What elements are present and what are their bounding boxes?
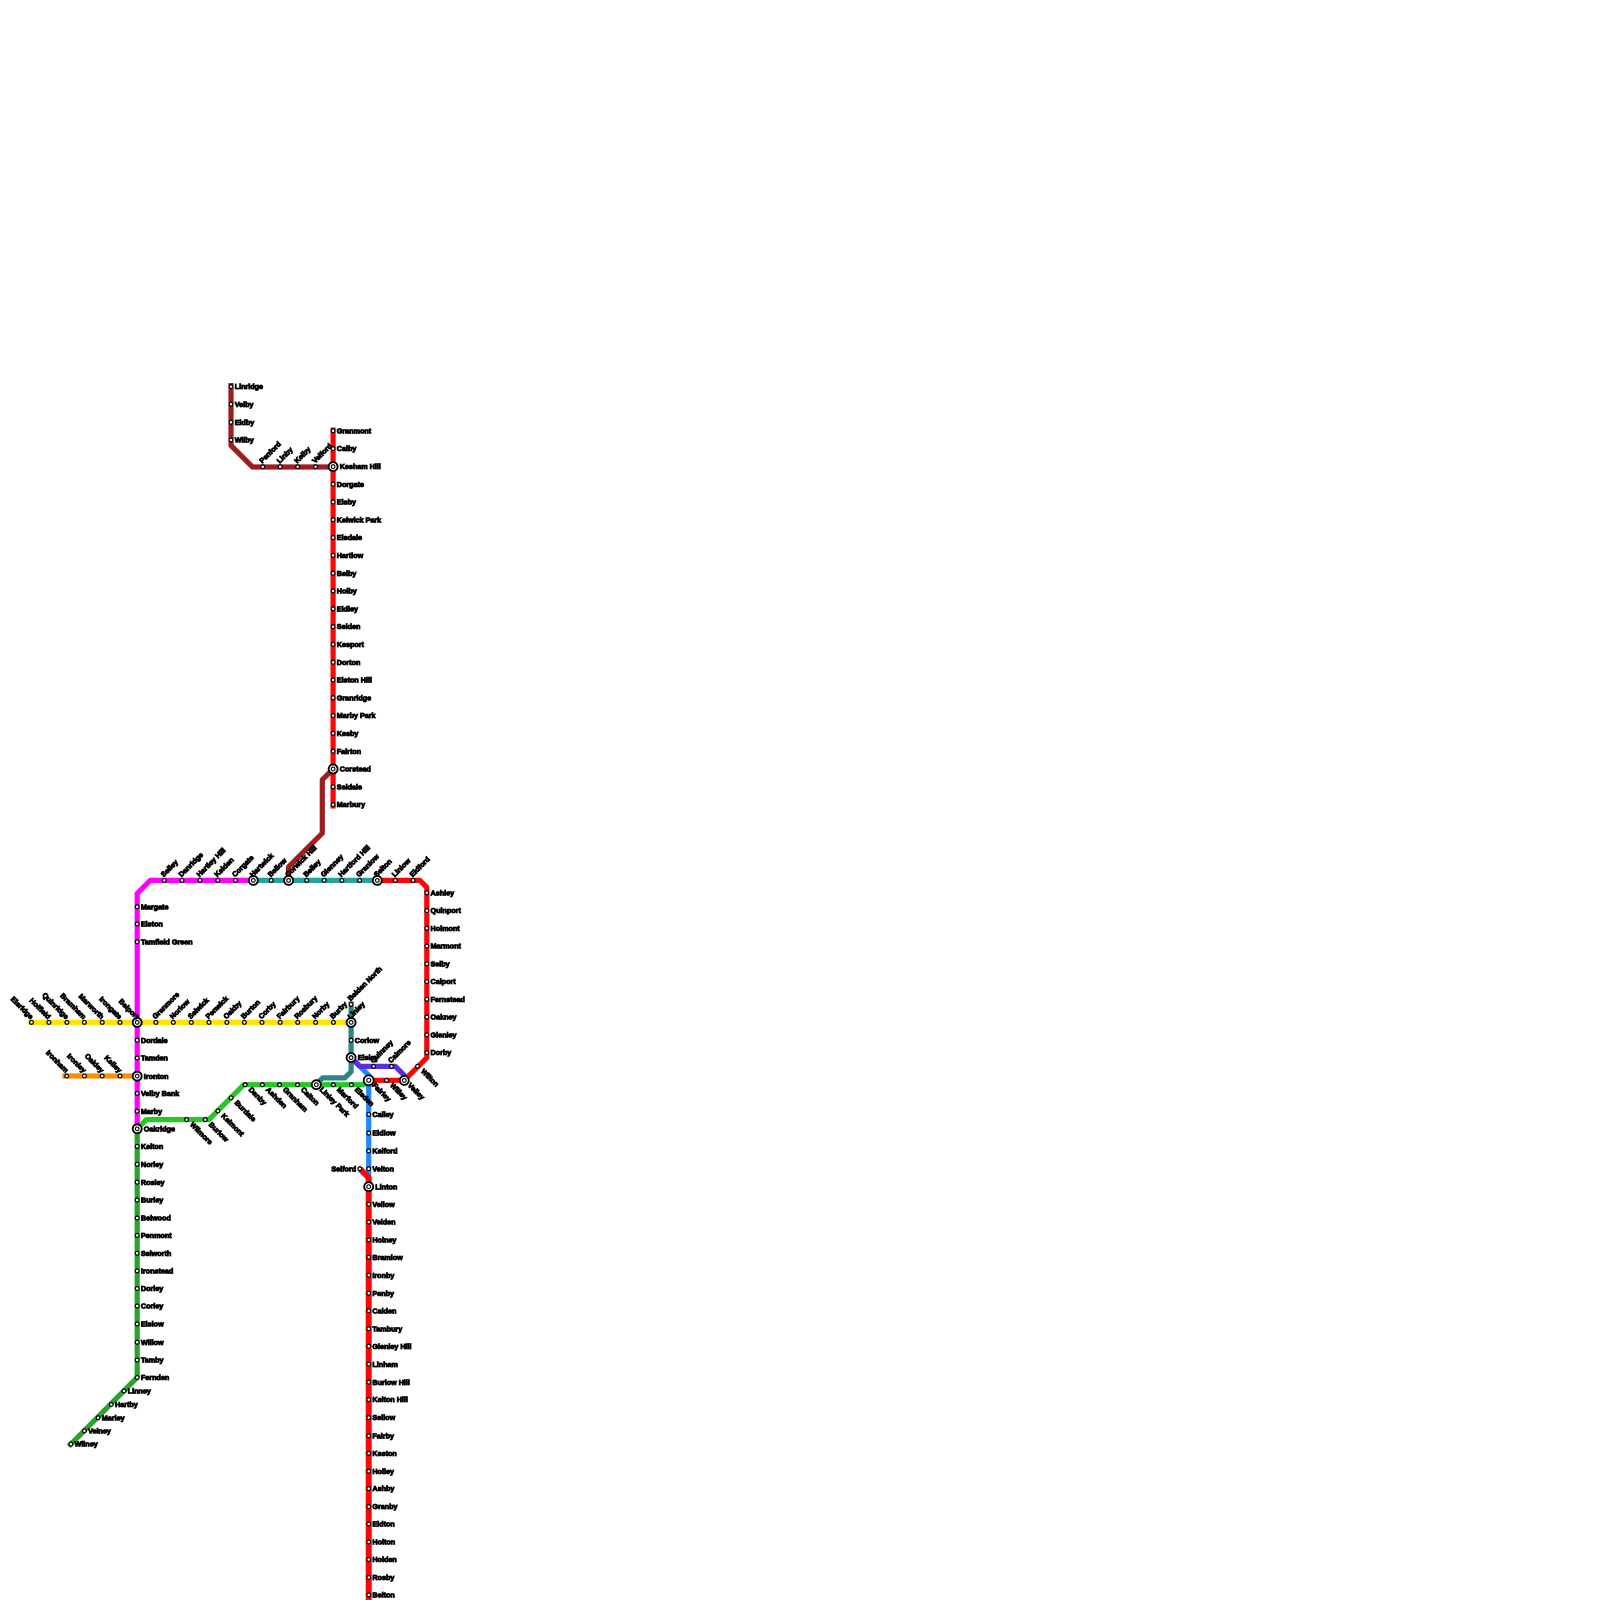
line Maroon branch west (231, 383, 333, 467)
station orange 1 (44, 1048, 70, 1078)
station magenta V4 (135, 1036, 167, 1045)
station green E6 (350, 1083, 377, 1108)
svg-text:Granby: Granby (372, 1502, 397, 1511)
interchange magenta-green interchange (133, 1124, 175, 1133)
svg-text:Hartby: Hartby (115, 1400, 138, 1409)
line Bright green line (137, 1080, 369, 1129)
station red N17 (331, 729, 358, 738)
station red N1 (331, 426, 372, 435)
line Purple line (351, 1058, 404, 1081)
station corridor teal 4 (336, 843, 372, 882)
station red S23 (367, 1591, 395, 1600)
svg-text:Kelwick Park: Kelwick Park (337, 515, 381, 524)
station red S1 (367, 1200, 395, 1209)
station corridor red 2 (408, 855, 432, 883)
station yellow E11 (328, 1000, 349, 1025)
svg-text:Corlow: Corlow (355, 1036, 380, 1045)
svg-text:Belby: Belby (337, 569, 357, 578)
station red S16 (367, 1467, 394, 1476)
svg-text:Granmont: Granmont (337, 426, 372, 435)
station red loop 4 (425, 942, 462, 951)
station red N9 (331, 587, 357, 596)
station yellow E10 (310, 1000, 331, 1025)
line Magenta line (137, 880, 253, 1128)
svg-text:Elsdale: Elsdale (337, 533, 362, 542)
station maroon V2 (229, 400, 253, 409)
station dgreen V11 (135, 1320, 164, 1329)
station yellow W1 (9, 995, 35, 1025)
svg-text:Tamfield Green: Tamfield Green (141, 937, 193, 946)
station corridor teal 2 (301, 857, 322, 882)
station dgreen V6 (135, 1231, 172, 1240)
station dgreen V3 (135, 1178, 164, 1187)
station yellow E5 (221, 999, 243, 1024)
station red S22 (367, 1573, 395, 1582)
svg-text:Tambury: Tambury (372, 1324, 402, 1333)
station green H2 (203, 1118, 230, 1144)
station corridor red 1 (390, 856, 413, 882)
station red S2 (367, 1218, 396, 1227)
svg-text:Norley: Norley (141, 1160, 163, 1169)
svg-text:Linney: Linney (128, 1387, 151, 1396)
station red N6 (331, 533, 362, 542)
svg-text:Tamby: Tamby (141, 1356, 164, 1365)
station red loop 8 (425, 1013, 457, 1022)
station maroon H2 (275, 445, 295, 468)
svg-text:Bramlow: Bramlow (372, 1253, 403, 1262)
station dgreen D4 (83, 1426, 111, 1435)
station red south branch stub (331, 1164, 361, 1173)
svg-text:Sellow: Sellow (372, 1413, 395, 1422)
station dgreen V13 (135, 1356, 163, 1365)
svg-text:Glenley Hill: Glenley Hill (372, 1342, 411, 1351)
interchange teal-blue-purple interchange (347, 1053, 379, 1062)
station red S9 (367, 1342, 412, 1351)
station corridor teal 5 (354, 852, 381, 882)
station green E4 (296, 1083, 322, 1108)
station red N10 (331, 604, 358, 613)
station corridor teal 1 (266, 856, 289, 883)
svg-text:Ironton: Ironton (144, 1072, 169, 1081)
svg-text:Ashley: Ashley (431, 888, 455, 897)
station yellow E6 (239, 998, 262, 1025)
svg-text:Kelford: Kelford (372, 1147, 397, 1156)
station red S15 (367, 1449, 397, 1458)
station red N8 (331, 569, 356, 578)
svg-text:Kesham Hill: Kesham Hill (340, 462, 381, 471)
svg-text:Linton: Linton (375, 1182, 397, 1191)
svg-text:Ashby: Ashby (372, 1484, 394, 1493)
station teal terminus (346, 965, 384, 1007)
svg-text:Dordale: Dordale (141, 1036, 168, 1045)
station red loop 5 (425, 959, 450, 968)
station red N13 (331, 658, 360, 667)
station green E2 (261, 1083, 289, 1110)
svg-text:Wilby: Wilby (235, 436, 254, 445)
svg-text:Dorton: Dorton (337, 658, 361, 667)
svg-text:Marby: Marby (141, 1107, 162, 1116)
station yellow W5 (77, 992, 106, 1025)
interchange corridor maroon interchange (283, 843, 318, 885)
station red N12 (331, 640, 364, 649)
station red S10 (367, 1360, 398, 1369)
interchange orange-magenta interchange (133, 1072, 169, 1081)
station red S19 (367, 1520, 395, 1529)
svg-text:Fernden: Fernden (141, 1373, 169, 1382)
station yellow E1 (150, 990, 181, 1024)
station magenta V7 (135, 1107, 162, 1116)
station orange 3 (83, 1052, 106, 1078)
line Red north trunk (331, 428, 336, 809)
station red N2 (331, 444, 356, 453)
station red N7 (331, 551, 363, 560)
station orange 2 (65, 1052, 88, 1078)
svg-text:Elsby: Elsby (337, 498, 356, 507)
station dgreen V10 (135, 1302, 163, 1311)
interchange red-purple interchange (400, 1076, 427, 1102)
station corridor magenta 1 (159, 858, 180, 883)
station green E3 (278, 1083, 310, 1114)
svg-text:Calley: Calley (372, 1110, 393, 1119)
svg-text:Marmont: Marmont (431, 942, 462, 951)
station blue 2 (367, 1129, 396, 1138)
svg-text:Corstead: Corstead (340, 765, 371, 774)
interchange corridor teal-red interchange (372, 857, 394, 885)
station maroon V3 (229, 418, 254, 427)
svg-text:Ironstead: Ironstead (141, 1267, 173, 1276)
station red N18 (331, 747, 361, 756)
svg-text:Marby Park: Marby Park (337, 711, 376, 720)
station red S8 (367, 1324, 402, 1333)
svg-text:Eldton: Eldton (372, 1520, 394, 1529)
svg-text:Velby: Velby (235, 400, 254, 409)
station red S21 (367, 1555, 397, 1564)
svg-text:Oakridge: Oakridge (144, 1124, 175, 1133)
station dgreen V9 (135, 1284, 163, 1293)
station yellow W6 (97, 995, 123, 1025)
svg-text:Velton: Velton (372, 1164, 394, 1173)
line Red east loop (369, 880, 427, 1080)
station red N5 (331, 515, 381, 524)
station green D2 (229, 1096, 258, 1124)
station red N19 (331, 782, 362, 791)
svg-text:Belwood: Belwood (141, 1214, 171, 1223)
svg-text:Elslow: Elslow (141, 1320, 164, 1329)
svg-text:Rosby: Rosby (372, 1573, 394, 1582)
station dgreen V12 (135, 1338, 164, 1347)
station teal mid (349, 1036, 379, 1045)
station yellow E8 (275, 994, 302, 1024)
svg-text:Velden: Velden (372, 1218, 395, 1227)
interchange yellow-teal interchange (346, 1000, 367, 1027)
svg-text:Kesby: Kesby (337, 729, 359, 738)
line Blue line (351, 1058, 369, 1187)
svg-text:Belton: Belton (372, 1591, 394, 1600)
station magenta V5 (135, 1054, 168, 1063)
station corridor magenta 3 (195, 846, 228, 882)
svg-text:Kelton Hill: Kelton Hill (372, 1395, 408, 1404)
svg-text:Marley: Marley (102, 1413, 125, 1422)
station red S5 (367, 1271, 395, 1280)
station red S3 (367, 1236, 397, 1245)
svg-text:Quinport: Quinport (431, 906, 462, 915)
station orange 4 (102, 1053, 123, 1078)
line Yellow line (28, 1020, 351, 1025)
interchange yellow-magenta interchange (117, 997, 142, 1027)
svg-text:Willow: Willow (141, 1338, 164, 1347)
station red S18 (367, 1502, 398, 1511)
station red S11 (367, 1378, 410, 1387)
station red loop west (385, 1079, 410, 1102)
station corridor magenta 2 (177, 850, 205, 882)
station red S12 (367, 1395, 408, 1404)
svg-text:Granridge: Granridge (337, 693, 371, 702)
station red N14 (331, 676, 372, 685)
svg-text:Ironby: Ironby (372, 1271, 394, 1280)
svg-text:Holden: Holden (372, 1555, 396, 1564)
svg-text:Dorby: Dorby (431, 1048, 452, 1057)
line Teal corridor (253, 878, 377, 883)
station dgreen D5 (69, 1440, 98, 1449)
station red loop 10 (425, 1048, 451, 1057)
station red N20 (331, 800, 365, 809)
svg-text:Penby: Penby (372, 1289, 394, 1298)
svg-text:Hartlow: Hartlow (337, 551, 364, 560)
station red S17 (367, 1484, 395, 1493)
station dgreen V2 (135, 1160, 163, 1169)
station dgreen V5 (135, 1214, 171, 1223)
svg-text:Eldley: Eldley (337, 604, 358, 613)
station yellow E9 (292, 994, 319, 1024)
station red loop 1 (425, 888, 454, 897)
station green H1 (185, 1118, 215, 1147)
station blue 1 (367, 1110, 394, 1119)
station magenta V6 (135, 1089, 179, 1098)
station magenta V2 (135, 920, 163, 929)
svg-text:Rosley: Rosley (141, 1178, 165, 1187)
station red S4 (367, 1253, 403, 1262)
svg-text:Fairby: Fairby (372, 1431, 394, 1440)
station red loop 6 (425, 977, 456, 986)
line Red south trunk (360, 1169, 369, 1600)
station dgreen V1 (135, 1142, 163, 1151)
station yellow E7 (257, 1000, 278, 1025)
station red S13 (367, 1413, 396, 1422)
svg-text:Dorley: Dorley (141, 1284, 163, 1293)
station dgreen V14 (135, 1373, 169, 1382)
station dgreen V7 (135, 1249, 171, 1258)
station red loop diag (416, 1064, 441, 1088)
line Maroon connector south (289, 769, 334, 880)
svg-text:Seldale: Seldale (337, 782, 362, 791)
station red S6 (367, 1289, 394, 1298)
station red N16 (331, 711, 375, 720)
station yellow E2 (168, 997, 192, 1024)
svg-text:Selby: Selby (431, 959, 450, 968)
interchange blue-red interchange (364, 1182, 397, 1191)
station yellow W4 (58, 991, 88, 1024)
svg-text:Burley: Burley (141, 1196, 163, 1205)
station green D1 (216, 1109, 247, 1138)
station maroon V1 (229, 382, 263, 391)
station maroon H3 (292, 445, 312, 469)
svg-text:Elston: Elston (141, 920, 163, 929)
interchange red mid interchange (329, 765, 371, 774)
svg-text:Selford: Selford (331, 1164, 356, 1173)
svg-text:Penmont: Penmont (141, 1231, 172, 1240)
svg-text:Holton: Holton (372, 1538, 395, 1547)
svg-text:Velby Bank: Velby Bank (141, 1089, 179, 1098)
station red loop 7 (425, 995, 465, 1004)
svg-text:Linham: Linham (372, 1360, 398, 1369)
svg-text:Eldby: Eldby (235, 418, 255, 427)
station magenta V1 (135, 902, 168, 911)
station yellow W2 (28, 996, 53, 1024)
station dgreen D2 (109, 1400, 137, 1409)
line Dark green line (69, 1129, 138, 1447)
station dgreen D1 (122, 1387, 151, 1396)
svg-text:Selden: Selden (337, 622, 361, 631)
station red loop 9 (425, 1030, 457, 1039)
station red S20 (367, 1538, 395, 1547)
station yellow W3 (40, 991, 70, 1025)
svg-text:Vellow: Vellow (372, 1200, 395, 1209)
station red N4 (331, 498, 356, 507)
station green E5 (332, 1083, 361, 1111)
interchange corridor magenta-teal interchange (248, 851, 276, 885)
svg-text:Holby: Holby (337, 587, 357, 596)
station red loop 2 (425, 906, 462, 915)
station magenta V3 (135, 937, 192, 946)
station maroon V4 (229, 436, 254, 445)
station purple 2 (386, 1038, 413, 1068)
svg-text:Keston: Keston (372, 1449, 396, 1458)
station blue 3 (367, 1147, 398, 1156)
station corridor teal 3 (319, 852, 345, 882)
svg-text:Oakney: Oakney (431, 1013, 457, 1022)
svg-text:Calby: Calby (337, 444, 357, 453)
svg-text:Kelton: Kelton (141, 1142, 163, 1151)
svg-text:Kesport: Kesport (337, 640, 365, 649)
interchange red-maroon junction (329, 462, 381, 471)
svg-text:Glenley: Glenley (431, 1030, 457, 1039)
station maroon H4 (310, 442, 334, 469)
svg-text:Holmont: Holmont (431, 924, 461, 933)
station maroon H1 (257, 440, 283, 469)
station red loop 3 (425, 924, 460, 933)
line Teal short line (316, 1002, 351, 1085)
station yellow E4 (204, 994, 231, 1024)
svg-text:Dorgate: Dorgate (337, 480, 364, 489)
station dgreen D3 (96, 1413, 124, 1422)
station corridor magenta 5 (230, 853, 256, 882)
svg-text:Calden: Calden (372, 1306, 396, 1315)
interchange blue-green-red junction (364, 1075, 393, 1103)
svg-text:Eldlow: Eldlow (372, 1129, 396, 1138)
svg-text:Burlow Hill: Burlow Hill (372, 1378, 410, 1387)
svg-text:Margate: Margate (141, 902, 169, 911)
svg-text:Corley: Corley (141, 1302, 163, 1311)
station dgreen V4 (135, 1196, 163, 1205)
station red N3 (331, 480, 364, 489)
svg-text:Velney: Velney (88, 1426, 111, 1435)
svg-text:Selworth: Selworth (141, 1249, 171, 1258)
station red S7 (367, 1306, 397, 1315)
station red S14 (367, 1431, 394, 1440)
interchange teal-green interchange (312, 1080, 352, 1118)
svg-text:Holney: Holney (372, 1236, 396, 1245)
station red N11 (331, 622, 360, 631)
svg-text:Tamden: Tamden (141, 1054, 168, 1063)
svg-text:Calport: Calport (431, 977, 457, 986)
station dgreen V8 (135, 1267, 173, 1276)
svg-text:Linridge: Linridge (235, 382, 263, 391)
svg-text:Fernstead: Fernstead (431, 995, 465, 1004)
station corridor magenta 4 (212, 856, 235, 883)
svg-text:Marbury: Marbury (337, 800, 365, 809)
svg-text:Holley: Holley (372, 1467, 394, 1476)
station yellow E3 (186, 996, 211, 1024)
svg-text:Elston Hill: Elston Hill (337, 676, 372, 685)
station green E1 (243, 1083, 268, 1107)
station red N15 (331, 693, 371, 702)
line Orange line (62, 1073, 137, 1078)
svg-text:Fairton: Fairton (337, 747, 361, 756)
station blue 4 (367, 1164, 394, 1173)
station purple 1 (368, 1038, 395, 1068)
svg-text:Wilney: Wilney (75, 1440, 98, 1449)
